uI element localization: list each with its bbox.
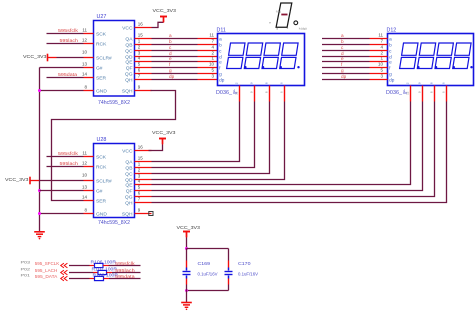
svg-text:595data: 595data xyxy=(115,274,135,279)
svg-text:10: 10 xyxy=(209,62,215,67)
power symbol VCC_3V3 xyxy=(159,138,166,140)
svg-text:595data: 595data xyxy=(58,72,78,77)
svg-text:QC: QC xyxy=(125,48,133,54)
wire U28.QA to display digit common xyxy=(152,102,240,162)
svg-text:g: g xyxy=(341,68,344,73)
D11 digit common pin 6 stub xyxy=(284,86,286,102)
svg-text:b: b xyxy=(389,42,392,47)
ground GND3 xyxy=(181,302,192,304)
junction at capacitor rail top xyxy=(185,247,188,250)
wire capacitor rail to ground xyxy=(186,291,188,303)
wire U27.VCC to power xyxy=(152,22,164,27)
svg-text:595sfclk: 595sfclk xyxy=(115,261,135,266)
svg-text:VCC_3V3: VCC_3V3 xyxy=(177,225,201,230)
svg-text:U27: U27 xyxy=(97,14,107,20)
wire U28.QE to display digit common xyxy=(152,102,411,185)
U28 right pin 4 stub xyxy=(135,184,152,186)
svg-text:12: 12 xyxy=(82,160,88,165)
svg-text:SCK: SCK xyxy=(96,31,107,37)
U27 right pin 1 stub xyxy=(135,44,152,46)
U27 right pin 15 stub xyxy=(135,38,152,40)
svg-text:SER: SER xyxy=(96,198,107,204)
svg-text:SCK: SCK xyxy=(96,154,107,160)
U28 right pin 6 stub xyxy=(135,196,152,198)
shift register U27 74hc595 body xyxy=(94,21,135,97)
svg-text:P01: P01 xyxy=(21,274,31,278)
svg-text:16: 16 xyxy=(138,22,144,27)
U27 right pin 6 stub xyxy=(135,73,152,75)
wire U27.GND to ground rail xyxy=(40,90,84,92)
wire U27.G# to ground rail xyxy=(40,67,84,69)
reference glyph segment g bar xyxy=(281,14,287,16)
U27 right pin 4 stub xyxy=(135,61,152,63)
svg-text:10: 10 xyxy=(378,62,384,67)
wire segment net d stub to D12.d xyxy=(322,56,370,58)
D12 7-segment digit 2 xyxy=(417,43,435,69)
wire U28.QF to display digit common xyxy=(152,102,423,191)
wire segment net b U27.QB to D11.b xyxy=(152,44,198,46)
svg-text:G#: G# xyxy=(96,65,103,71)
wire ground rail to U28.G# xyxy=(40,190,84,192)
wire segment net d U27.QD to D11.d xyxy=(152,56,198,58)
svg-text:14: 14 xyxy=(82,194,88,199)
svg-text:0.1uF/16V: 0.1uF/16V xyxy=(238,271,259,276)
wire 595lach to U28.RCK xyxy=(47,166,84,168)
svg-text:f (g): f (g) xyxy=(276,9,281,13)
svg-text:GND: GND xyxy=(96,211,107,217)
D12 digit 4 decimal point xyxy=(470,66,472,68)
D12 7-segment digit 1 xyxy=(400,43,418,69)
power symbol VCC_3V3 xyxy=(160,16,167,18)
svg-text:dp: dp xyxy=(389,77,395,82)
svg-text:QG: QG xyxy=(125,71,133,77)
svg-text:R107 100R: R107 100R xyxy=(92,266,118,271)
U28 right pin 7 stub xyxy=(135,202,152,204)
wire VCC_3V3 to U27.SCLR# xyxy=(57,57,84,59)
svg-text:SQH: SQH xyxy=(122,88,133,94)
D12 7-segment digit 3 xyxy=(435,43,453,69)
wire U28.QH to display digit common xyxy=(152,102,447,203)
svg-text:12: 12 xyxy=(82,37,88,42)
D11 digit 1 decimal point xyxy=(244,66,246,68)
display D12 D036_4 body xyxy=(388,34,474,86)
U28 left pin 8 stub xyxy=(84,213,94,215)
D11 7-segment digit 2 xyxy=(244,43,262,69)
svg-text:D11: D11 xyxy=(217,28,226,34)
wire U28.QC to display digit common xyxy=(152,102,270,174)
D11 digit 2 decimal point xyxy=(262,66,264,68)
svg-text:b: b xyxy=(169,39,172,44)
svg-text:e: e xyxy=(219,59,222,64)
U28 left pin 12 stub xyxy=(84,166,94,168)
svg-text:e: e xyxy=(389,59,392,64)
wire 595data to U27.SER xyxy=(47,77,84,79)
no-connect marker U28.SQH xyxy=(149,212,153,216)
ground GND1 xyxy=(34,231,45,233)
U28 right pin 9 stub xyxy=(135,213,152,215)
U27 left pin 8 stub xyxy=(84,90,94,92)
D11 digit 4 decimal point xyxy=(297,66,299,68)
svg-text:595sfclk: 595sfclk xyxy=(58,28,79,33)
svg-text:QH: QH xyxy=(125,77,133,83)
wire segment net f U27.QF to D11.f xyxy=(152,67,198,69)
svg-text:QG: QG xyxy=(125,194,133,200)
svg-text:13: 13 xyxy=(82,61,88,66)
svg-text:R108 100R: R108 100R xyxy=(93,272,119,277)
D12 digit common pin 12 stub xyxy=(410,86,412,102)
svg-text:15: 15 xyxy=(138,33,144,38)
U28 right pin 2 stub xyxy=(135,173,152,175)
svg-text:VCC_3V3: VCC_3V3 xyxy=(152,130,176,135)
svg-text:b: b xyxy=(341,39,344,44)
U27 left pin 11 stub xyxy=(84,33,94,35)
junction at U28.GND xyxy=(38,212,41,215)
svg-text:10: 10 xyxy=(82,50,88,55)
svg-text:VCC_3V3: VCC_3V3 xyxy=(153,8,177,13)
wire segment net dp stub to D12.dp xyxy=(322,79,370,81)
wire 595sfclk to U27.SCK xyxy=(47,33,84,35)
svg-text:VCC_3V3: VCC_3V3 xyxy=(5,177,29,182)
wire 595sfclk to U28.SCK xyxy=(47,156,84,158)
capacitor C169 xyxy=(186,249,188,261)
U27 left pin 14 stub xyxy=(84,77,94,79)
wire 595_LACH to resistor R107 xyxy=(69,272,93,274)
ground rail vertical wire xyxy=(39,68,41,232)
D12 digit common pin 8 stub xyxy=(434,86,436,102)
svg-text:a: a xyxy=(169,33,172,38)
D12 digit 1 decimal point xyxy=(417,66,419,68)
svg-text:12: 12 xyxy=(405,82,409,86)
D11 digit 3 decimal point xyxy=(280,66,282,68)
svg-text:11: 11 xyxy=(209,33,214,38)
svg-text:g: g xyxy=(219,71,222,76)
wire segment net e U27.QE to D11.e xyxy=(152,61,198,63)
svg-text:b: b xyxy=(219,42,222,47)
U27 right pin 9 stub xyxy=(135,90,152,92)
U28 right pin 3 stub xyxy=(135,179,152,181)
wire VCC_3V3 to U28.SCLR# xyxy=(39,180,84,182)
svg-text:74hc595_8X2: 74hc595_8X2 xyxy=(98,100,130,106)
junction at capacitor rail bottom xyxy=(185,289,188,292)
svg-text:15: 15 xyxy=(138,156,144,161)
D11 7-segment digit 1 xyxy=(227,43,245,69)
U27 left pin 12 stub xyxy=(84,43,94,45)
svg-text:QA: QA xyxy=(125,159,133,165)
svg-text:SCLR#: SCLR# xyxy=(96,178,112,184)
D12 digit 2 decimal point xyxy=(435,66,437,68)
svg-text:13: 13 xyxy=(82,184,88,189)
svg-text:RCK: RCK xyxy=(96,41,107,47)
reference glyph dp circle xyxy=(294,21,298,25)
wire segment net c U27.QC to D11.c xyxy=(152,50,198,52)
U28 left pin 10 stub xyxy=(84,180,94,182)
svg-text:QB: QB xyxy=(125,42,132,48)
svg-text:12: 12 xyxy=(234,82,238,86)
wire segment net a stub to D12.a xyxy=(322,38,370,40)
wire segment net g U27.QG to D11.g xyxy=(152,73,198,75)
U28 right pin 5 stub xyxy=(135,190,152,192)
capacitor bottom rail wire xyxy=(187,290,229,292)
D11 digit common pin 12 stub xyxy=(239,86,241,102)
wire 595_SFCLK to resistor R106 xyxy=(69,265,90,267)
U28 left pin 13 stub xyxy=(84,190,94,192)
svg-text:h (dp): h (dp) xyxy=(299,26,307,30)
wire U28.VCC to power xyxy=(149,145,163,151)
resistor R107 100R xyxy=(98,270,107,274)
svg-text:14: 14 xyxy=(82,71,88,76)
U27 right pin 5 stub xyxy=(135,67,152,69)
svg-text:SQH: SQH xyxy=(122,211,133,217)
svg-text:QC: QC xyxy=(125,171,133,177)
svg-text:RCK: RCK xyxy=(96,164,107,170)
svg-text:10: 10 xyxy=(82,173,88,178)
svg-text:12: 12 xyxy=(235,91,239,95)
D11 7-segment digit 3 xyxy=(262,43,280,69)
segment naming reference glyph xyxy=(276,3,292,27)
svg-text:11: 11 xyxy=(82,150,87,155)
capacitor top rail wire xyxy=(187,248,229,250)
svg-text:dp: dp xyxy=(219,77,225,82)
junction at U27.GND xyxy=(38,89,41,92)
svg-text:11: 11 xyxy=(378,33,383,38)
U27 right pin 2 stub xyxy=(135,50,152,52)
display D11 D036_4 body xyxy=(218,34,305,86)
U28 right pin 15 stub xyxy=(135,161,152,163)
svg-text:QH: QH xyxy=(125,200,133,206)
svg-text:595_SFCLK: 595_SFCLK xyxy=(35,261,60,266)
U27 right pin 16 stub xyxy=(135,27,152,29)
svg-text:VCC: VCC xyxy=(122,148,133,154)
wire 595lach to U27.RCK xyxy=(47,43,84,45)
wire segment net dp U27.QH to D11.dp xyxy=(152,79,198,81)
wire resistor R108 to net 595data xyxy=(104,278,110,280)
wire U28.GND to ground rail xyxy=(40,213,84,215)
svg-text:QA: QA xyxy=(125,36,133,42)
svg-text:595_DATA: 595_DATA xyxy=(35,274,58,279)
svg-text:g: g xyxy=(389,71,392,76)
svg-text:QE: QE xyxy=(125,182,133,188)
U27 left pin 10 stub xyxy=(84,57,94,59)
U27 right pin 7 stub xyxy=(135,79,152,81)
svg-text:0.1uF/16V: 0.1uF/16V xyxy=(198,271,219,276)
wire segment net c stub to D12.c xyxy=(322,50,370,52)
svg-text:595sfclk: 595sfclk xyxy=(58,151,79,156)
wire U28.QG to display digit common xyxy=(152,102,435,197)
svg-text:e: e xyxy=(341,56,344,61)
D12 7-segment digit 4 xyxy=(453,43,471,69)
wire U28.QD to display digit common xyxy=(152,102,285,180)
junction at U28.G# xyxy=(38,189,41,192)
wire 595_DATA to resistor R108 xyxy=(69,278,90,280)
U28 left pin 11 stub xyxy=(84,156,94,158)
D11 7-segment digit 4 xyxy=(280,43,298,69)
U28 left pin 14 stub xyxy=(84,200,94,202)
svg-text:P03: P03 xyxy=(21,261,31,265)
svg-text:G#: G# xyxy=(96,188,103,194)
U27 right pin 3 stub xyxy=(135,56,152,58)
svg-text:QB: QB xyxy=(125,165,132,171)
wire segment net a U27.QA to D11.a xyxy=(152,38,198,40)
svg-text:GND: GND xyxy=(96,88,107,94)
svg-text:D036_: D036_ xyxy=(386,90,402,96)
svg-text:g: g xyxy=(169,68,172,73)
U28 right pin 16 stub xyxy=(135,150,152,152)
svg-text:C170: C170 xyxy=(238,261,251,266)
U28 right pin 1 stub xyxy=(135,167,152,169)
svg-text:U28: U28 xyxy=(97,137,107,143)
svg-text:11: 11 xyxy=(82,27,87,32)
svg-text:16: 16 xyxy=(138,145,144,150)
svg-text:e: e xyxy=(169,56,172,61)
svg-text:QE: QE xyxy=(125,59,133,65)
D11 digit common pin 8 stub xyxy=(269,86,271,102)
wire segment net e stub to D12.e xyxy=(322,61,370,63)
svg-text:C169: C169 xyxy=(198,261,211,266)
svg-text:74hc595_8X2: 74hc595_8X2 xyxy=(98,220,130,226)
D12 digit 3 decimal point xyxy=(453,66,455,68)
svg-text:595lach: 595lach xyxy=(60,161,79,166)
resistor R106 100R xyxy=(95,263,104,267)
svg-text:dp: dp xyxy=(169,74,175,79)
svg-text:D12: D12 xyxy=(387,28,397,34)
wire resistor R106 to net 595sfclk xyxy=(103,265,109,267)
svg-text:595lach: 595lach xyxy=(60,38,79,43)
wire resistor R107 to net 595lach xyxy=(107,272,113,274)
svg-text:R106 100R: R106 100R xyxy=(91,259,117,264)
svg-text:VCC_3V3: VCC_3V3 xyxy=(23,54,47,59)
D11 digit common pin 9 stub xyxy=(254,86,256,102)
power symbol VCC_3V3 (bar) xyxy=(47,54,49,62)
wire U27.SQH cascade to U28.SER xyxy=(52,91,176,201)
svg-text:a: a xyxy=(341,33,344,38)
svg-text:SER: SER xyxy=(96,75,107,81)
capacitor C170 xyxy=(228,249,230,261)
wire segment net b stub to D12.b xyxy=(322,44,370,46)
D12 digit common pin 6 stub xyxy=(446,86,448,102)
svg-text:595lach: 595lach xyxy=(115,268,135,273)
svg-text:dp: dp xyxy=(341,74,347,79)
wire segment net f stub to D12.f xyxy=(322,67,370,69)
wire segment net g stub to D12.g xyxy=(322,73,370,75)
shift register U28 74hc595 body xyxy=(94,144,135,218)
wire U28.QB to display digit common xyxy=(152,102,255,168)
svg-text:P02: P02 xyxy=(21,268,31,272)
resistor R108 100R xyxy=(95,276,104,280)
svg-text:595_LACH: 595_LACH xyxy=(35,268,57,273)
svg-text:12: 12 xyxy=(406,91,410,95)
power symbol VCC_3V3 xyxy=(183,231,190,233)
svg-text:VCC: VCC xyxy=(122,25,133,31)
power symbol VCC_3V3 (bar) xyxy=(29,177,31,185)
svg-text:a: a xyxy=(389,36,392,41)
U27 left pin 13 stub xyxy=(84,67,94,69)
svg-text:QF: QF xyxy=(126,65,133,71)
svg-text:D036_: D036_ xyxy=(216,90,232,96)
svg-text:SCLR#: SCLR# xyxy=(96,55,112,61)
svg-text:QF: QF xyxy=(126,188,133,194)
D12 digit common pin 9 stub xyxy=(422,86,424,102)
svg-text:a: a xyxy=(219,36,222,41)
